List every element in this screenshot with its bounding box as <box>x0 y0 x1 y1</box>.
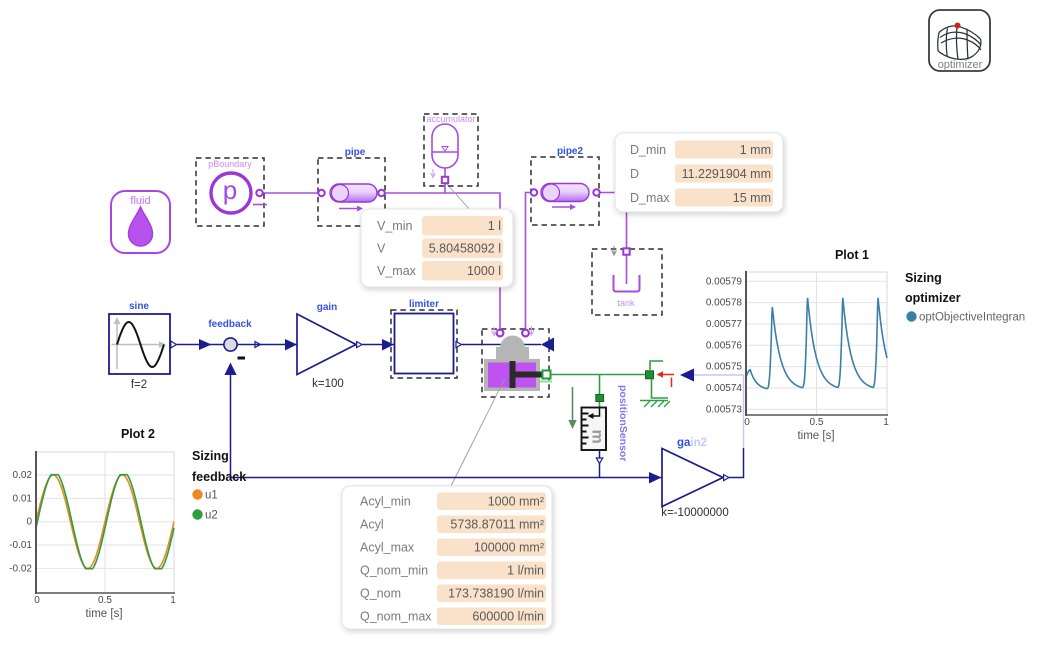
svg-text:5738.87011 mm²: 5738.87011 mm² <box>450 518 544 532</box>
svg-text:Acyl_min: Acyl_min <box>360 495 411 509</box>
svg-text:0.00575: 0.00575 <box>706 362 743 373</box>
svg-text:0.00579: 0.00579 <box>706 276 743 287</box>
svg-text:sine: sine <box>129 301 149 312</box>
svg-text:1000 mm²: 1000 mm² <box>488 495 544 509</box>
svg-text:feedback: feedback <box>192 470 246 484</box>
svg-text:0.5: 0.5 <box>98 595 112 606</box>
svg-text:0: 0 <box>26 517 32 528</box>
svg-text:1: 1 <box>883 417 889 428</box>
svg-text:0.00573: 0.00573 <box>706 404 743 415</box>
svg-text:15 mm: 15 mm <box>733 191 771 205</box>
svg-text:Q_nom_max: Q_nom_max <box>360 610 432 624</box>
svg-text:-0.02: -0.02 <box>9 563 32 574</box>
svg-text:positionSensor: positionSensor <box>617 385 629 461</box>
svg-text:-0.01: -0.01 <box>9 540 32 551</box>
svg-text:V_max: V_max <box>377 264 417 278</box>
svg-text:optObjectiveIntegran: optObjectiveIntegran <box>919 312 1025 324</box>
svg-text:k=-10000000: k=-10000000 <box>661 507 728 519</box>
svg-text:600000 l/min: 600000 l/min <box>472 610 544 624</box>
svg-text:1: 1 <box>170 595 176 606</box>
svg-text:f=2: f=2 <box>131 379 147 391</box>
svg-text:Q_nom_min: Q_nom_min <box>360 564 428 578</box>
svg-text:u1: u1 <box>205 490 218 502</box>
svg-text:pipe: pipe <box>345 147 366 158</box>
svg-text:0.5: 0.5 <box>810 417 824 428</box>
svg-text:D: D <box>630 167 639 181</box>
svg-text:Plot 2: Plot 2 <box>121 427 155 441</box>
svg-text:1 mm: 1 mm <box>740 143 771 157</box>
svg-text:Sizing: Sizing <box>905 271 942 285</box>
svg-text:0.00577: 0.00577 <box>706 319 743 330</box>
svg-text:Q_nom: Q_nom <box>360 587 401 601</box>
svg-text:m: m <box>589 430 606 444</box>
svg-text:D_max: D_max <box>630 191 670 205</box>
svg-text:gain: gain <box>317 302 338 313</box>
svg-text:1 l/min: 1 l/min <box>507 564 544 578</box>
svg-text:0.02: 0.02 <box>13 470 33 481</box>
svg-text:Plot 1: Plot 1 <box>835 248 869 262</box>
svg-text:accumulator: accumulator <box>426 114 475 124</box>
svg-text:Sizing: Sizing <box>192 449 229 463</box>
svg-text:pipe2: pipe2 <box>557 146 584 157</box>
svg-text:0.00574: 0.00574 <box>706 383 743 394</box>
svg-text:D_min: D_min <box>630 143 666 157</box>
svg-text:V_min: V_min <box>377 219 412 233</box>
svg-text:Acyl: Acyl <box>360 518 384 532</box>
svg-text:optimizer: optimizer <box>905 291 961 305</box>
svg-text:V: V <box>377 242 386 256</box>
svg-text:1 l: 1 l <box>488 219 501 233</box>
svg-text:5.80458092 l: 5.80458092 l <box>429 242 501 256</box>
svg-text:11.2291904 mm: 11.2291904 mm <box>682 167 771 181</box>
svg-text:Acyl_max: Acyl_max <box>360 541 415 555</box>
svg-text:p: p <box>223 175 237 205</box>
svg-text:173.738190 l/min: 173.738190 l/min <box>448 587 544 601</box>
svg-text:k=100: k=100 <box>312 378 344 390</box>
svg-text:feedback: feedback <box>208 319 252 330</box>
svg-text:optimizer: optimizer <box>938 59 983 71</box>
svg-text:100000 mm²: 100000 mm² <box>474 541 544 555</box>
svg-text:0.00576: 0.00576 <box>706 340 743 351</box>
svg-text:u2: u2 <box>205 510 218 522</box>
svg-text:tank: tank <box>617 298 635 308</box>
svg-text:0.01: 0.01 <box>13 493 33 504</box>
svg-text:time [s]: time [s] <box>797 430 834 442</box>
svg-text:0: 0 <box>744 417 750 428</box>
svg-text:gain2: gain2 <box>677 437 707 449</box>
svg-text:0.00578: 0.00578 <box>706 298 743 309</box>
svg-text:0: 0 <box>34 595 40 606</box>
svg-text:limiter: limiter <box>409 299 439 310</box>
svg-text:1000 l: 1000 l <box>467 264 501 278</box>
svg-text:pBoundary: pBoundary <box>208 159 252 169</box>
svg-text:time [s]: time [s] <box>85 608 122 620</box>
